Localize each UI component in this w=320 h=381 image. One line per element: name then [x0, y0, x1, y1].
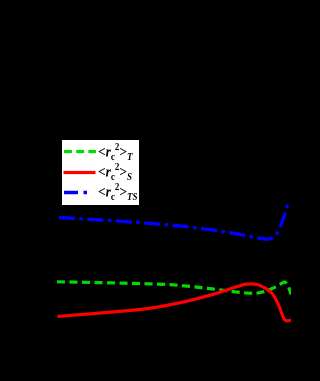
curve <rc2>TS (blue dash-dot) — [59, 204, 288, 240]
legend sample blue dash-dot — [64, 191, 96, 194]
curve <rc2>T (green dashed) — [57, 282, 291, 295]
legend sample green dashed — [64, 150, 96, 153]
legend box — [62, 140, 139, 205]
curve <rc2>S (red solid) — [58, 284, 292, 321]
legend sample red solid — [64, 171, 96, 174]
